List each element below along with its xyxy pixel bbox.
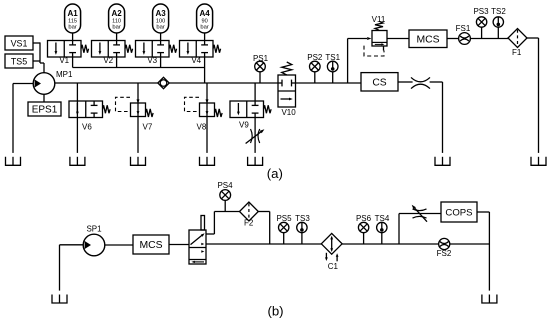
sensor box TS5 [5, 54, 33, 68]
control box MCS (b) [133, 235, 169, 254]
svg-text:TS5: TS5 [11, 57, 27, 67]
tank (F1 return) [531, 157, 546, 166]
wire pump to EPS1 [43, 94, 45, 102]
svg-text:PS6: PS6 [356, 214, 372, 223]
flow control valve (b) [189, 216, 206, 265]
svg-text:PS3: PS3 [473, 7, 489, 16]
svg-text:FS2: FS2 [437, 249, 452, 258]
valve V9 (2/2 solenoid) [230, 101, 271, 129]
control box CS [361, 73, 398, 91]
wire branch to COPS [399, 214, 441, 245]
flow switch FS1 [456, 24, 471, 44]
wire A4 to V4 [204, 33, 206, 41]
pump MP1 [33, 70, 73, 94]
wire V1 outlet [72, 57, 74, 68]
svg-text:V1: V1 [59, 56, 69, 65]
wire SP1 to MCS [105, 244, 133, 246]
pressure switch PS4 [217, 181, 233, 212]
check valve on main bus [158, 77, 169, 88]
wire bus riser to V11 line [348, 39, 367, 84]
wire V9 to tank [254, 118, 256, 153]
control box MCS (a) [409, 30, 447, 48]
pressure switch PS5 [276, 214, 292, 244]
svg-text:MCS: MCS [139, 240, 162, 251]
wire COPS to tank line [477, 212, 489, 291]
svg-text:EPS1: EPS1 [32, 105, 58, 116]
sensor box VS1 [5, 36, 33, 50]
svg-text:CS: CS [372, 78, 386, 89]
svg-text:F2: F2 [244, 219, 254, 228]
wire orifice to tank [430, 82, 443, 153]
wire F2 to main line [258, 212, 269, 245]
svg-text:V2: V2 [103, 56, 113, 65]
tank (V9) [248, 157, 263, 166]
accumulator A4 90 bar [197, 4, 213, 33]
pump SP1 [83, 224, 105, 256]
valve V10 (2/2 in-line) [278, 62, 296, 117]
relief valve V8 [185, 97, 223, 131]
variable throttle under V9 [246, 129, 265, 144]
wire MCS to FS1 [447, 38, 459, 40]
wire FS1 to F1 [470, 38, 508, 40]
wire A3 to V3 [160, 33, 162, 41]
tank (CS return) [435, 157, 450, 166]
pressure switch PS1 [253, 54, 269, 83]
wire V2 outlet [116, 57, 118, 68]
svg-text:VS1: VS1 [11, 39, 28, 49]
svg-text:bar: bar [156, 24, 164, 30]
caption (a) [267, 166, 283, 181]
tank (V7) [131, 157, 146, 166]
accumulator A3 100 bar [153, 4, 169, 33]
svg-text:TS1: TS1 [325, 53, 340, 62]
svg-text:bar: bar [112, 24, 120, 30]
svg-text:A2: A2 [111, 9, 122, 18]
wire A2 to V2 [116, 33, 118, 41]
wire V4 outlet [204, 57, 206, 68]
wire bus to V9 [254, 83, 256, 101]
wire bus to V6 to tank [76, 83, 78, 153]
svg-text:TS3: TS3 [295, 214, 310, 223]
wire bus to V8 to tank [206, 83, 208, 153]
temperature switch TS3 [295, 214, 310, 244]
svg-text:V6: V6 [82, 123, 92, 132]
valve V6 (2/2, normally open) [69, 101, 110, 132]
svg-text:TS2: TS2 [491, 7, 506, 16]
svg-text:PS1: PS1 [253, 54, 269, 63]
pressure switch PS3 [473, 7, 489, 39]
relief valve V7 [116, 97, 154, 131]
pressure switch PS2 [307, 53, 323, 83]
svg-text:(a): (a) [267, 166, 283, 181]
wire valve to F2 branch [206, 212, 240, 235]
filter F1 [508, 29, 527, 58]
svg-text:PS2: PS2 [307, 53, 323, 62]
svg-text:C1: C1 [328, 262, 339, 271]
svg-text:bar: bar [200, 24, 208, 30]
svg-text:bar: bar [68, 24, 76, 30]
cooler C1 [321, 233, 342, 271]
orifice after CS [411, 77, 430, 88]
svg-text:F1: F1 [512, 48, 522, 57]
filter F2 [240, 202, 259, 228]
tank (b return) [482, 295, 497, 304]
wire bus V10 to CS [296, 82, 362, 84]
wire V3 outlet [160, 57, 162, 68]
svg-text:V11: V11 [372, 15, 386, 24]
wire F1 to tank [527, 38, 539, 153]
svg-text:V7: V7 [143, 123, 153, 132]
wire tank to SP1 [60, 245, 84, 291]
tank (V8) [200, 157, 215, 166]
valve V2 (2/2 solenoid) [92, 41, 133, 66]
relief valve V11 [364, 15, 387, 56]
svg-text:V8: V8 [197, 123, 207, 132]
wire VS1/TS5 to pump [33, 42, 44, 72]
temperature switch TS1 [325, 53, 340, 83]
control box COPS [441, 202, 477, 222]
svg-text:V9: V9 [239, 120, 249, 129]
svg-text:V3: V3 [147, 56, 157, 65]
svg-text:PS4: PS4 [217, 181, 233, 190]
accumulator A2 110 bar [109, 4, 125, 33]
svg-text:MCS: MCS [416, 35, 439, 46]
svg-text:A1: A1 [67, 9, 78, 18]
pressure switch PS6 [356, 214, 372, 244]
flow switch FS2 [437, 238, 452, 258]
svg-text:V10: V10 [281, 108, 296, 117]
svg-text:MP1: MP1 [56, 70, 73, 79]
tank (V6) [70, 157, 85, 166]
wire CS to orifice [398, 81, 413, 83]
svg-text:TS4: TS4 [375, 214, 390, 223]
svg-text:A3: A3 [155, 9, 166, 18]
svg-text:V4: V4 [191, 56, 201, 65]
wire A1 to V1 [72, 33, 74, 41]
svg-text:SP1: SP1 [86, 224, 102, 233]
svg-text:A4: A4 [199, 9, 210, 18]
wire main line (b) [206, 243, 489, 245]
wire accumulator sub-bus [73, 68, 205, 84]
svg-text:FS1: FS1 [456, 24, 471, 33]
temperature switch TS2 [491, 7, 506, 39]
wire main bus (a) [55, 82, 278, 84]
svg-text:(b): (b) [267, 304, 283, 319]
valve V4 (2/2 solenoid) [180, 41, 221, 66]
valve V3 (2/2 solenoid) [136, 41, 177, 66]
svg-text:COPS: COPS [445, 208, 472, 219]
temperature switch TS4 [375, 214, 390, 244]
tank (SP1 suction) [52, 295, 67, 304]
variable throttle before COPS [412, 205, 427, 222]
valve V1 (2/2 solenoid) [48, 41, 89, 66]
svg-text:PS5: PS5 [276, 214, 292, 223]
control box EPS1 [28, 102, 61, 116]
wire V11 to MCS [387, 38, 409, 40]
wire bus to V7 to tank [137, 83, 139, 153]
accumulator A1 115 bar [65, 4, 81, 33]
wire pump suction to tank [13, 84, 33, 153]
tank (pump suction) [6, 157, 21, 166]
wire MCS to valve [169, 244, 189, 246]
caption (b) [267, 304, 283, 319]
